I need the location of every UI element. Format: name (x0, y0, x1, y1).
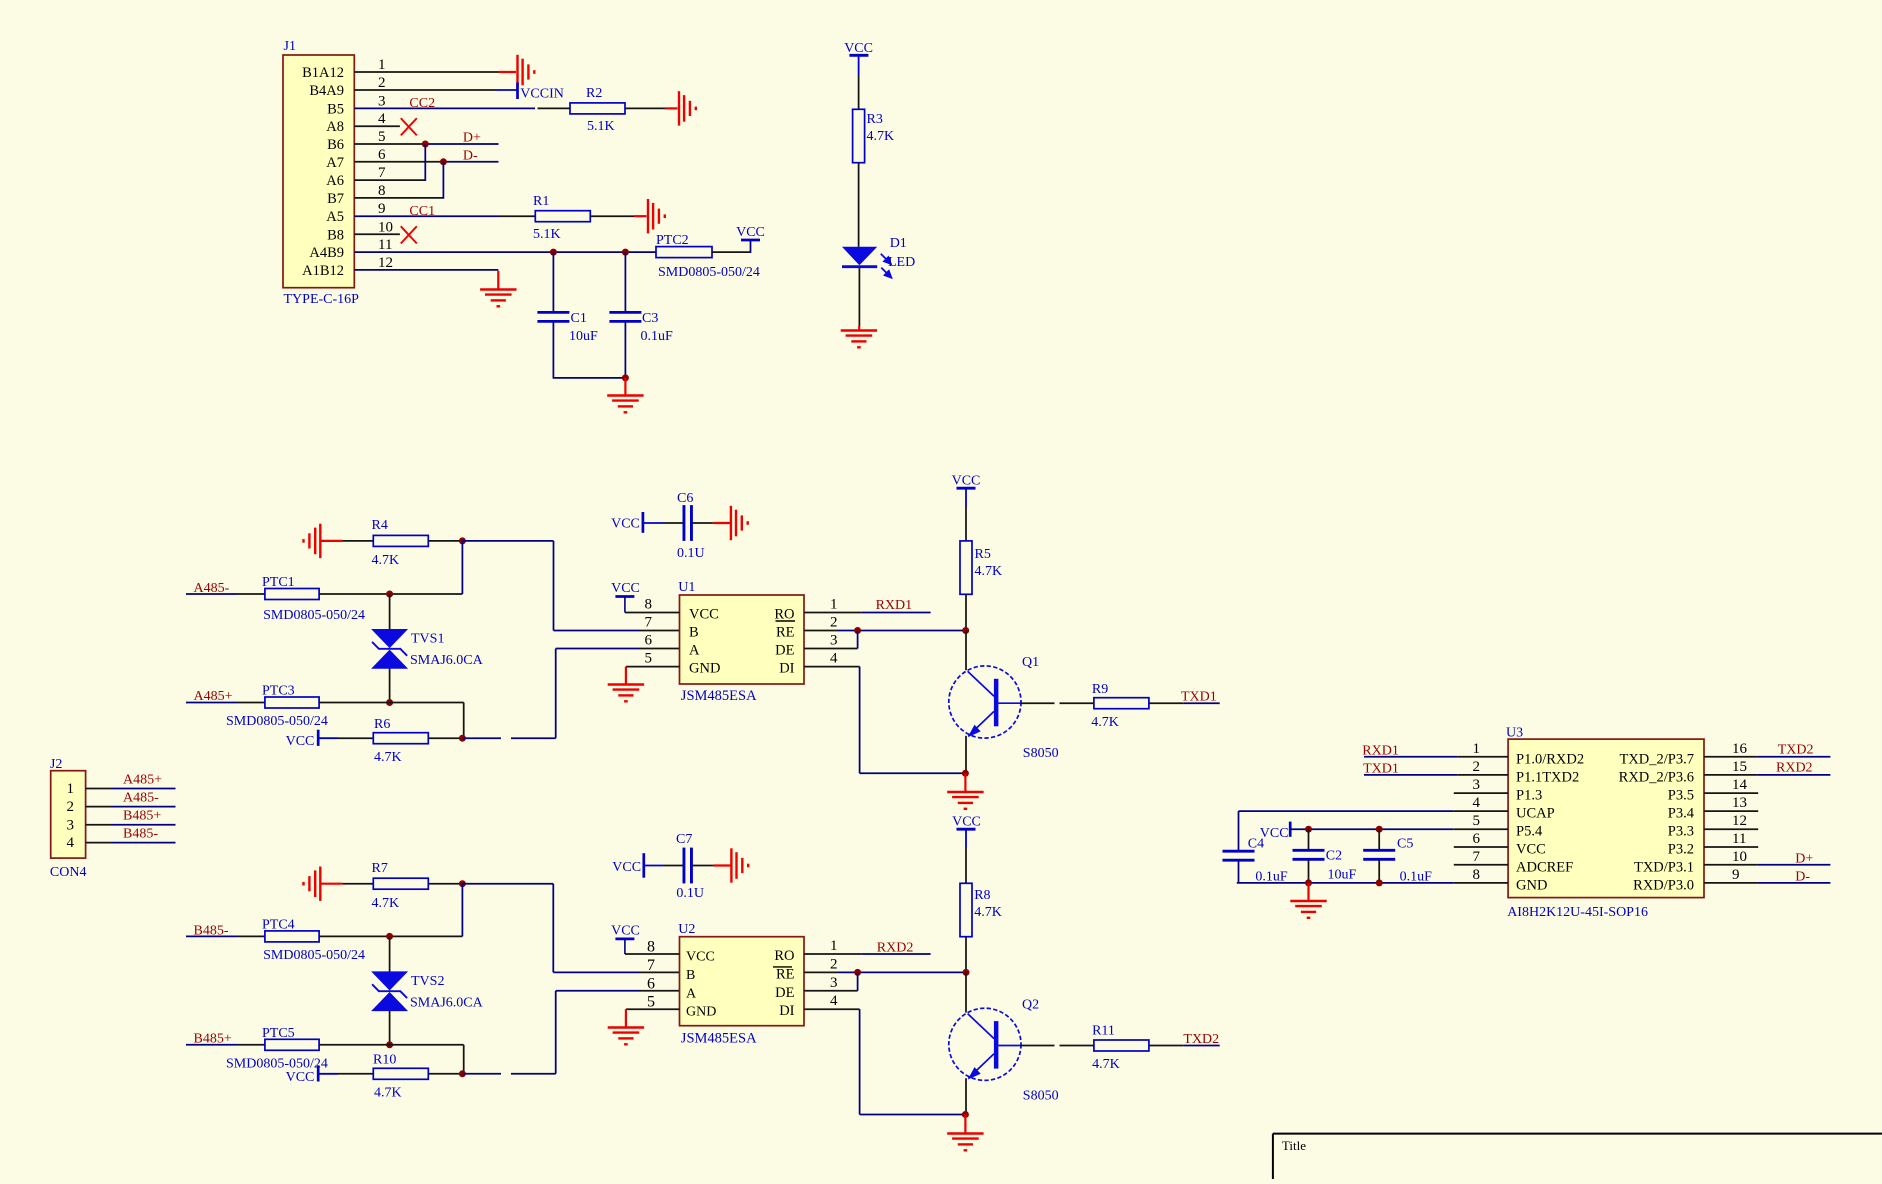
wire U3 pin2 TXD1 (1364, 774, 1457, 776)
svg-text:PTC2: PTC2 (656, 233, 689, 248)
wire R5 to RE node (965, 594, 967, 630)
svg-text:DI: DI (779, 661, 794, 677)
svg-text:A485+: A485+ (123, 772, 162, 787)
svg-text:A7: A7 (326, 155, 344, 171)
svg-text:S8050: S8050 (1023, 746, 1059, 761)
svg-text:13: 13 (1732, 795, 1747, 811)
resistor R9 4.7K (1094, 698, 1149, 709)
svg-text:ADCREF: ADCREF (1516, 859, 1573, 875)
wire TVS2 top (389, 936, 391, 973)
svg-text:S8050: S8050 (1023, 1088, 1059, 1103)
svg-text:C4: C4 (1248, 837, 1264, 852)
wire U3 pin5 VCC net (1290, 828, 1454, 830)
svg-text:5.1K: 5.1K (587, 119, 615, 134)
wire U3 pin4 UCAP to C4 (1239, 810, 1454, 812)
wire J1 pin8 to D- (354, 197, 443, 199)
wire J1 pin12 to ground (354, 269, 498, 271)
ground (C6) (731, 506, 742, 540)
capacitor C3 0.1uF (609, 312, 641, 321)
svg-text:RO: RO (774, 607, 794, 623)
wire U3 pin16 TXD2 (1704, 756, 1757, 758)
svg-text:2: 2 (830, 956, 838, 972)
wire PTC5 to R10 node (319, 1044, 464, 1046)
svg-text:VCC: VCC (952, 814, 981, 829)
svg-text:B485-: B485- (123, 826, 158, 841)
svg-text:1: 1 (830, 938, 838, 954)
wire VCC to R3 (858, 55, 860, 75)
wire Q2 base to R11 (1021, 1045, 1055, 1047)
svg-text:VCC: VCC (611, 517, 640, 532)
ground (U1 pin5) (608, 685, 644, 696)
svg-text:A5: A5 (326, 209, 344, 225)
IC U2 JSM485ESA (647, 922, 838, 1047)
svg-text:4: 4 (830, 651, 838, 667)
wire U1 pin8 (625, 612, 680, 614)
svg-text:B4A9: B4A9 (309, 83, 344, 99)
wire R3 to D1 (858, 163, 860, 247)
svg-text:PTC3: PTC3 (262, 684, 295, 699)
wire R10 to node (428, 1073, 462, 1075)
svg-text:DI: DI (779, 1003, 794, 1019)
svg-text:B1A12: B1A12 (302, 65, 344, 81)
wire PTC2 to VCC (712, 251, 751, 253)
svg-text:R8: R8 (974, 888, 990, 903)
wire U1 RO RXD1 (804, 612, 861, 614)
capacitor C5 0.1uF (1378, 829, 1380, 850)
svg-text:D+: D+ (463, 131, 481, 146)
svg-text:B8: B8 (327, 227, 344, 243)
title block border (1273, 1134, 1882, 1179)
resistor R4 4.7K (373, 535, 428, 546)
IC U3 AI8H2K12U-45I-SOP16 (1473, 726, 1748, 921)
capacitor C4 0.1uF (1223, 851, 1255, 860)
svg-text:CC2: CC2 (409, 96, 435, 111)
svg-text:AI8H2K12U-45I-SOP16: AI8H2K12U-45I-SOP16 (1507, 905, 1648, 920)
svg-text:B7: B7 (327, 191, 344, 207)
wire TVS1 top (389, 594, 391, 631)
resistor R3 4.7K (853, 109, 865, 162)
wire node to Q1 collector (965, 631, 967, 671)
svg-text:R9: R9 (1092, 682, 1108, 697)
wire U2 DI to Q2 emitter (804, 1008, 860, 1010)
wire C1 bottom (552, 322, 554, 378)
svg-text:5: 5 (378, 129, 386, 145)
svg-text:RE: RE (776, 625, 795, 641)
svg-text:VCC: VCC (612, 860, 641, 875)
resistor R6 4.7K (373, 733, 428, 744)
svg-text:RXD2: RXD2 (877, 940, 914, 955)
svg-text:TVS2: TVS2 (411, 974, 444, 989)
svg-text:16: 16 (1732, 741, 1748, 757)
svg-text:5: 5 (647, 994, 655, 1011)
wire node down to A485- (461, 541, 463, 594)
svg-text:0.1uF: 0.1uF (1400, 870, 1433, 885)
wire R8 to RE node (965, 937, 967, 973)
wire D1 to ground (858, 268, 860, 326)
junction R10/A-line (459, 1070, 466, 1077)
svg-text:C6: C6 (677, 491, 693, 506)
svg-text:UCAP: UCAP (1516, 806, 1555, 822)
svg-text:2: 2 (67, 799, 75, 815)
svg-text:4.7K: 4.7K (374, 750, 402, 765)
svg-text:10uF: 10uF (1328, 868, 1357, 883)
svg-text:7: 7 (1473, 849, 1481, 865)
wire J1 pin3 CC2 (354, 107, 535, 109)
svg-text:4.7K: 4.7K (975, 564, 1003, 579)
svg-text:SMD0805-050/24: SMD0805-050/24 (263, 948, 365, 963)
svg-text:U1: U1 (678, 580, 695, 595)
junction C3 top (622, 249, 629, 256)
wire node to U2 pin7 B (462, 883, 553, 885)
ground (R1) (648, 199, 659, 233)
resistor R7 4.7K (373, 878, 428, 889)
svg-text:7: 7 (378, 165, 386, 181)
ground (R4) (309, 524, 320, 558)
junction Q2 emitter/DI (962, 1111, 969, 1118)
svg-text:A: A (686, 986, 697, 1001)
wire U3 pin8 GND net (1237, 882, 1454, 884)
wire J1 pin1 to ground (354, 71, 498, 73)
wire ground to R7 (320, 883, 342, 885)
wire U3 pin15 RXD2 (1704, 774, 1757, 776)
svg-text:SMD0805-050/24: SMD0805-050/24 (226, 714, 328, 729)
svg-text:6: 6 (378, 147, 386, 163)
svg-text:11: 11 (378, 237, 392, 253)
wire Q2 emitter (965, 1078, 967, 1114)
wire U3 pin7 (1454, 864, 1508, 866)
svg-text:6: 6 (647, 975, 655, 992)
svg-text:4.7K: 4.7K (372, 553, 400, 568)
wire R1 to ground (590, 215, 634, 217)
fuse PTC1 SMD0805-050/24 (265, 589, 319, 600)
resistor R2 5.1K (570, 103, 625, 114)
transistor Q1 S8050 (949, 666, 1021, 738)
wire C3 bottom (624, 322, 626, 378)
junction pin6/pin8 (440, 158, 447, 165)
wire node down to B485- (461, 884, 463, 937)
svg-text:GND: GND (1516, 877, 1547, 893)
svg-text:R10: R10 (373, 1053, 396, 1068)
wire J1 pin9 CC1 (354, 215, 498, 217)
junction pin5/pin7 (422, 141, 429, 148)
svg-text:D1: D1 (890, 236, 907, 251)
svg-text:1: 1 (830, 597, 838, 613)
wire U1 pin5 to ground (626, 666, 680, 668)
svg-text:RO: RO (774, 948, 794, 964)
svg-text:4.7K: 4.7K (1091, 715, 1119, 730)
svg-text:R11: R11 (1092, 1024, 1115, 1039)
wire R4 to node (428, 540, 462, 542)
svg-text:3: 3 (830, 633, 838, 649)
svg-text:R4: R4 (372, 518, 388, 533)
svg-text:VCC: VCC (689, 607, 719, 623)
svg-text:PTC1: PTC1 (262, 575, 295, 590)
svg-text:14: 14 (1732, 777, 1748, 793)
svg-text:10: 10 (378, 219, 393, 235)
wire J1 pin10 no-connect (354, 233, 400, 235)
svg-text:0.1U: 0.1U (676, 886, 704, 901)
fuse PTC3 SMD0805-050/24 (265, 697, 319, 708)
wire R7 to node (428, 883, 462, 885)
junction TVS2 top (386, 933, 393, 940)
fuse PTC5 SMD0805-050/24 (265, 1039, 319, 1050)
junction C2 bottom (1305, 879, 1312, 886)
wire PTC1 to TVS1 node (319, 593, 462, 595)
wire ground to R4 (320, 540, 342, 542)
resistor R10 4.7K (373, 1068, 428, 1079)
svg-text:12: 12 (1732, 813, 1747, 829)
no-connect X (pin4) (401, 118, 417, 135)
svg-text:3: 3 (1473, 777, 1481, 793)
svg-text:P1.1TXD2: P1.1TXD2 (1516, 769, 1579, 785)
wire node to U1 pin6 A (462, 737, 501, 739)
ground (U3 decoupling) (1290, 901, 1326, 912)
wire PTC3 to R6 node (319, 702, 464, 704)
svg-text:CC1: CC1 (409, 204, 435, 219)
svg-text:3: 3 (830, 975, 838, 991)
junction TVS1 top (386, 591, 393, 598)
wire U2 pin5 to ground (626, 1008, 680, 1010)
junction C2 top (1305, 826, 1312, 833)
svg-text:D+: D+ (1795, 851, 1813, 866)
svg-text:C5: C5 (1397, 837, 1413, 852)
wire U1 DE (804, 648, 858, 650)
wire U3 pin10 D+ (1704, 864, 1757, 866)
svg-text:2: 2 (830, 615, 838, 631)
svg-text:1: 1 (378, 57, 386, 73)
svg-text:4.7K: 4.7K (374, 1086, 402, 1101)
svg-text:11: 11 (1732, 831, 1746, 847)
junction R8/RE (963, 969, 970, 976)
svg-text:TXD1: TXD1 (1181, 690, 1217, 705)
svg-text:TXD/P3.1: TXD/P3.1 (1634, 859, 1694, 875)
resistor R5 4.7K (960, 541, 972, 594)
svg-text:4: 4 (1473, 795, 1481, 811)
svg-text:3: 3 (378, 93, 386, 109)
svg-text:A: A (689, 643, 700, 659)
wire U1 RE (804, 630, 838, 632)
svg-text:B5: B5 (327, 101, 344, 117)
svg-text:JSM485ESA: JSM485ESA (681, 688, 757, 704)
TVS diode TVS1 SMAJ6.0CA (371, 629, 408, 648)
svg-text:0.1U: 0.1U (677, 546, 705, 561)
junction R7/B-line (459, 880, 466, 887)
svg-text:TXD2: TXD2 (1183, 1032, 1219, 1047)
svg-text:SMAJ6.0CA: SMAJ6.0CA (410, 653, 484, 668)
svg-text:4: 4 (67, 835, 75, 851)
svg-text:TYPE-C-16P: TYPE-C-16P (284, 292, 360, 307)
wire J2 B485+ (86, 824, 112, 826)
svg-text:DE: DE (775, 985, 794, 1001)
wire RE to DE (U2) (857, 972, 859, 990)
svg-text:RXD_2/P3.6: RXD_2/P3.6 (1619, 769, 1694, 785)
wire VCC to R5 (965, 488, 967, 508)
svg-text:J1: J1 (284, 39, 296, 54)
resistor R8 4.7K (960, 883, 972, 936)
wire PTC4 to TVS2 node (319, 935, 462, 937)
wire VCC to R6 (318, 737, 338, 739)
svg-text:5.1K: 5.1K (533, 227, 561, 242)
svg-text:R5: R5 (975, 547, 991, 562)
power VCC (PTC2) (741, 239, 760, 242)
wire pin11 to C3 (624, 252, 626, 311)
ground (C1/C3) (607, 396, 643, 407)
wire B485+ to PTC5 (186, 1044, 237, 1046)
wire Q1 emitter (965, 736, 967, 774)
svg-text:B: B (686, 968, 695, 983)
svg-text:Q2: Q2 (1022, 997, 1039, 1012)
svg-text:DE: DE (775, 643, 794, 659)
wire J1 pin2 VCCIN (354, 89, 495, 91)
svg-text:2: 2 (378, 75, 386, 91)
svg-text:P3.5: P3.5 (1668, 788, 1694, 804)
ground (Q2) (947, 1134, 983, 1145)
wire Q1 base to R9 (1021, 702, 1055, 704)
wire A485+ to PTC3 (186, 702, 237, 704)
junction R6/A-line (459, 735, 466, 742)
ground (R2) (679, 91, 690, 125)
IC U1 JSM485ESA (645, 580, 839, 704)
connector J2 CON4 (50, 757, 87, 880)
wire U3 pin6 (1454, 846, 1508, 848)
svg-text:Title: Title (1282, 1138, 1306, 1153)
ground (U2 pin5) (608, 1028, 644, 1039)
svg-text:P3.4: P3.4 (1668, 806, 1695, 822)
svg-text:0.1uF: 0.1uF (641, 329, 674, 344)
svg-text:0.1uF: 0.1uF (1255, 870, 1288, 885)
svg-text:10: 10 (1732, 849, 1747, 865)
svg-text:VCC: VCC (686, 950, 715, 965)
wire C2 to ground (1307, 883, 1309, 901)
svg-text:4: 4 (830, 993, 838, 1009)
svg-text:VCC: VCC (844, 41, 873, 56)
junction R4/B-line (459, 537, 466, 544)
svg-text:B485+: B485+ (123, 809, 161, 824)
wire J2 B485- (86, 842, 112, 844)
LED D1 (842, 247, 877, 265)
ground (Q1) (947, 792, 983, 803)
svg-text:R2: R2 (586, 86, 602, 101)
svg-text:C3: C3 (642, 311, 658, 326)
svg-text:4.7K: 4.7K (1092, 1057, 1120, 1072)
svg-text:12: 12 (378, 255, 393, 271)
svg-text:P1.0/RXD2: P1.0/RXD2 (1516, 751, 1584, 767)
wire U3 pin9 D- (1704, 882, 1757, 884)
svg-text:U3: U3 (1506, 726, 1523, 741)
svg-text:P5.4: P5.4 (1516, 824, 1543, 840)
svg-text:5: 5 (1473, 813, 1481, 829)
svg-text:8: 8 (647, 939, 655, 956)
wire U3 pin3 (1454, 792, 1508, 794)
svg-text:2: 2 (1473, 759, 1481, 775)
svg-text:PTC4: PTC4 (262, 918, 295, 933)
wire R6 to node (428, 737, 462, 739)
junction C5 top (1376, 826, 1383, 833)
svg-text:VCC: VCC (1516, 842, 1546, 858)
connector J1 TYPE-C-16P (283, 39, 393, 307)
svg-text:JSM485ESA: JSM485ESA (681, 1031, 757, 1047)
capacitor C2 10uF (1308, 829, 1310, 850)
svg-text:4: 4 (378, 111, 386, 127)
wire A485- to PTC1 (186, 593, 237, 595)
wire U2 DE (804, 990, 858, 992)
svg-text:5: 5 (645, 651, 653, 667)
svg-text:SMAJ6.0CA: SMAJ6.0CA (410, 995, 484, 1010)
capacitor C1 10uF (537, 312, 569, 321)
wire VCC to R8 (965, 829, 967, 848)
svg-text:SMD0805-050/24: SMD0805-050/24 (263, 608, 365, 623)
svg-text:J2: J2 (50, 757, 62, 772)
svg-text:VCCIN: VCCIN (520, 87, 564, 102)
ground (C7) (731, 848, 742, 882)
wire J1 pin6 D- (354, 161, 443, 163)
svg-text:B6: B6 (327, 137, 344, 153)
svg-text:4.7K: 4.7K (372, 896, 400, 911)
svg-text:6: 6 (1473, 831, 1481, 847)
svg-text:9: 9 (378, 201, 386, 217)
svg-text:U2: U2 (678, 922, 695, 937)
wire U2 RE (804, 971, 838, 973)
wire pin11 to C1 (552, 252, 554, 311)
junction TVS1 bottom (386, 699, 393, 706)
svg-text:GND: GND (689, 661, 720, 677)
svg-text:Q1: Q1 (1022, 655, 1039, 670)
svg-text:LED: LED (888, 255, 915, 270)
svg-text:1: 1 (67, 781, 75, 797)
svg-text:VCC: VCC (736, 225, 765, 240)
fuse PTC4 SMD0805-050/24 (265, 931, 319, 942)
svg-text:RXD1: RXD1 (876, 598, 913, 613)
svg-text:3: 3 (67, 817, 75, 833)
svg-text:P1.3: P1.3 (1516, 788, 1542, 804)
svg-text:8: 8 (1473, 867, 1481, 883)
junction R5/RE (962, 627, 969, 634)
svg-text:8: 8 (645, 597, 653, 613)
svg-text:RXD/P3.0: RXD/P3.0 (1633, 877, 1694, 893)
junction C1/C3 ground (622, 374, 629, 381)
svg-text:A1B12: A1B12 (302, 263, 344, 279)
wire node to U1 pin7 B (462, 540, 553, 542)
wire node to Q2 collector (965, 972, 967, 1012)
svg-text:P3.3: P3.3 (1668, 824, 1694, 840)
ground (R7) (309, 867, 320, 901)
svg-text:VCC: VCC (611, 581, 640, 596)
resistor R11 4.7K (1094, 1040, 1149, 1051)
svg-text:A485-: A485- (123, 790, 159, 805)
svg-text:TVS1: TVS1 (411, 632, 444, 647)
junction TVS2 bottom (386, 1041, 393, 1048)
svg-text:A8: A8 (326, 119, 344, 135)
svg-text:VCC: VCC (286, 734, 315, 749)
junction RE/DE (U2) (854, 969, 861, 976)
wire U3 pin13 (1704, 810, 1758, 812)
svg-text:R1: R1 (533, 194, 549, 209)
junction C5 bottom (1376, 879, 1383, 886)
svg-text:D-: D- (1795, 869, 1810, 884)
ground (D1) (841, 331, 877, 342)
TVS diode TVS2 SMAJ6.0CA (371, 971, 408, 990)
svg-text:A4B9: A4B9 (309, 245, 344, 261)
ground (J1 pin1) (518, 55, 529, 89)
wire J1 pin4 no-connect (354, 125, 400, 127)
svg-text:7: 7 (645, 615, 653, 631)
wire TVS1 bottom (389, 669, 391, 703)
no-connect X (pin10) (401, 226, 417, 243)
ground (J1 pin12) (480, 290, 516, 301)
junction RE/DE (854, 627, 861, 634)
svg-text:VCC: VCC (286, 1070, 315, 1085)
wire U1 DI to Q1 emitter (804, 666, 860, 668)
